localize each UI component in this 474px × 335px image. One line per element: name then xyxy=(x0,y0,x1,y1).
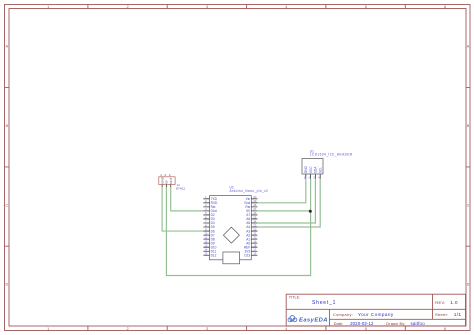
svg-text:Arduino_Nano_pin_v2: Arduino_Nano_pin_v2 xyxy=(230,189,269,193)
svg-text:C: C xyxy=(5,203,8,207)
svg-text:1.0: 1.0 xyxy=(450,300,458,306)
svg-text:2: 2 xyxy=(127,327,129,331)
svg-text:1/1: 1/1 xyxy=(454,312,462,318)
svg-text:REV:: REV: xyxy=(435,300,445,305)
svg-text:2020-02-12: 2020-02-12 xyxy=(350,321,374,326)
svg-text:D: D xyxy=(467,283,470,287)
svg-text:Company:: Company: xyxy=(333,313,353,317)
svg-text:C: C xyxy=(467,203,470,207)
svg-text:1: 1 xyxy=(47,5,49,9)
svg-text:TITLE:: TITLE: xyxy=(289,296,300,300)
svg-text:saitfoo: saitfoo xyxy=(411,321,426,326)
svg-text:LCD1604_I2C_HEADER: LCD1604_I2C_HEADER xyxy=(310,153,353,157)
svg-text:4: 4 xyxy=(285,327,287,331)
svg-text:4: 4 xyxy=(285,5,287,9)
svg-text:15: 15 xyxy=(204,252,208,256)
svg-text:Drawn By:: Drawn By: xyxy=(386,322,405,326)
svg-text:5: 5 xyxy=(365,5,367,9)
svg-text:3: 3 xyxy=(206,5,208,9)
svg-text:GND: GND xyxy=(304,165,308,173)
svg-text:EasyEDA: EasyEDA xyxy=(299,318,328,324)
svg-text:OUT: OUT xyxy=(169,177,173,184)
svg-text:Sheet:: Sheet: xyxy=(435,312,448,317)
svg-text:D12: D12 xyxy=(211,254,217,258)
svg-text:16: 16 xyxy=(253,252,257,256)
svg-text:6: 6 xyxy=(444,327,446,331)
svg-text:3: 3 xyxy=(206,327,208,331)
svg-text:6: 6 xyxy=(444,5,446,9)
svg-text:DTH11: DTH11 xyxy=(176,187,186,191)
svg-text:1: 1 xyxy=(47,327,49,331)
svg-text:SCL: SCL xyxy=(319,167,323,173)
svg-text:D13: D13 xyxy=(244,254,250,258)
svg-text:Date:: Date: xyxy=(334,322,344,326)
svg-text:Sheet_1: Sheet_1 xyxy=(312,300,336,306)
svg-text:SDA: SDA xyxy=(314,166,318,173)
svg-text:Your Company: Your Company xyxy=(358,312,394,317)
svg-text:5: 5 xyxy=(365,327,367,331)
svg-text:VCC: VCC xyxy=(309,166,313,173)
svg-text:2: 2 xyxy=(127,5,129,9)
svg-text:D: D xyxy=(5,283,8,287)
